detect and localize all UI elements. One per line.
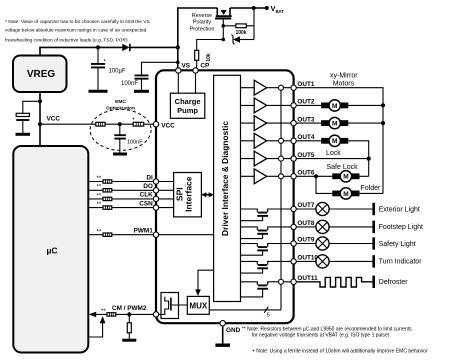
node sense tap OUT11: [279, 279, 284, 284]
wire OUT6: [296, 175, 368, 177]
wire CLK pin to SPI block: [156, 198, 174, 200]
svg-text:OUT11: OUT11: [297, 275, 318, 282]
terminal bar Turn Indicator: [372, 255, 375, 267]
svg-text:OUT2: OUT2: [297, 99, 314, 106]
node bus OUT2: [381, 103, 385, 107]
wire OUT3: [296, 122, 383, 124]
pin OUT11: [291, 279, 296, 284]
lamp Footstep Light: [296, 220, 372, 233]
resistor series CSN: [103, 206, 112, 209]
capacitor VREG output: [16, 101, 40, 133]
node junction rail / protection network: [252, 6, 256, 10]
svg-text:Interface: Interface: [183, 176, 193, 212]
svg-text:Reverse: Reverse: [192, 13, 212, 19]
zener diode gate protection: [240, 39, 254, 41]
svg-text:MUX: MUX: [189, 302, 207, 311]
SPI interface block: [174, 173, 202, 217]
pin OUT3: [291, 120, 296, 125]
wire VREG to VS: [40, 47, 178, 55]
svg-text:* Note: Value of capacitor has: * Note: Value of capacitor has to be cho…: [5, 19, 150, 25]
node 100uF tap: [96, 45, 100, 49]
svg-text:OUT5: OUT5: [297, 152, 314, 159]
svg-text:voltage below absolute maximum: voltage below absolute maximum ratings i…: [5, 28, 147, 34]
svg-text:Protection: Protection: [190, 27, 215, 33]
wire VS pin to charge pump: [177, 71, 179, 94]
wire driver to buffer OUT4: [241, 140, 291, 142]
svg-text:M: M: [332, 121, 337, 128]
svg-text:M: M: [332, 138, 337, 145]
svg-text:OUT1: OUT1: [297, 81, 314, 88]
wire gate lead: [222, 19, 224, 40]
svg-text:BAT: BAT: [276, 9, 285, 14]
buffer triangle OUT1: [254, 80, 267, 95]
svg-text:10k: 10k: [206, 53, 212, 62]
pin OUT6: [291, 174, 296, 179]
svg-text:CM / PWM2: CM / PWM2: [112, 305, 147, 312]
node sense tap: [279, 156, 284, 161]
svg-text:100k: 100k: [235, 30, 246, 36]
pin PWM1: [153, 232, 158, 237]
pin DO: [153, 188, 158, 193]
terminal bar Defroster: [372, 276, 375, 288]
svg-text:**: **: [97, 202, 102, 208]
pin OUT8: [291, 224, 296, 229]
svg-text:OUT3: OUT3: [297, 116, 314, 123]
svg-text:CLK: CLK: [140, 192, 154, 199]
diode series VREG-VS: [122, 44, 129, 51]
ground under 100uF: [89, 90, 108, 93]
svg-text:Turn Indicator: Turn Indicator: [379, 259, 423, 266]
pin OUT1: [291, 85, 296, 90]
svg-text:freewheeling condition of indu: freewheeling condition of inductive load…: [5, 38, 128, 44]
pin VS: [176, 68, 181, 73]
wire driver to buffer OUT5: [241, 158, 291, 160]
buffer triangle OUT2: [254, 98, 267, 113]
resistor series CLK: [103, 197, 112, 200]
svg-text:VCC: VCC: [161, 123, 175, 130]
svg-text:OUT8: OUT8: [297, 220, 314, 227]
wire OUT5: [296, 158, 368, 160]
capacitor 100uF: [91, 47, 105, 91]
lamp Safety Light: [296, 237, 372, 250]
svg-text:Polarity: Polarity: [193, 20, 212, 26]
wire VREG to uC: [39, 92, 41, 146]
node gate / 100k junction: [222, 24, 226, 28]
motor safe lock: [332, 171, 359, 182]
buffer triangle OUT6: [254, 169, 267, 184]
pin GND: [220, 321, 225, 326]
wire driver to buffer OUT2: [241, 104, 291, 106]
resistor 10k: [195, 50, 199, 60]
svg-text:M: M: [332, 103, 337, 110]
bidirectional arrow SPI to driver: [205, 194, 211, 196]
wire uC PWM2 return with up arrow: [88, 322, 102, 337]
svg-text:**: **: [97, 176, 102, 182]
wire MUX to sense bus with 5 marker: [209, 309, 281, 311]
wire VBAT rail left segment: [178, 8, 218, 71]
wire folder branch: [316, 176, 383, 193]
ground under 100nF: [134, 90, 149, 93]
wire driver to MUX with arrow: [198, 270, 214, 291]
svg-text:µC: µC: [46, 246, 57, 256]
resistor series DI: [103, 180, 112, 183]
svg-text:+: +: [132, 116, 135, 122]
resistor series DO: [103, 189, 112, 192]
pin OUT7: [291, 206, 296, 211]
driver IC L9950 body: [156, 70, 294, 323]
wire right vertical of protection network: [253, 8, 255, 40]
svg-text:Folder: Folder: [361, 185, 382, 192]
capacitor 100nF EMC: [114, 124, 126, 153]
node lock bus OUT5: [367, 157, 371, 161]
transistor reverse polarity NMOS: [215, 8, 232, 19]
wire CSN: [88, 207, 153, 209]
pin CLK: [153, 196, 158, 201]
resistor EMC right (10ohm / ferrite): [133, 122, 144, 126]
wire OUT1 to motor bus: [296, 88, 383, 194]
capacitor 100nF at VS: [135, 62, 178, 91]
svg-text:Charge: Charge: [175, 97, 201, 106]
heater Defroster: [296, 277, 372, 287]
node VS line / 100nF junction: [176, 61, 180, 65]
pin OUT9: [291, 241, 296, 246]
svg-text:**: **: [97, 193, 102, 199]
terminal bar Safety Light: [372, 237, 375, 249]
svg-text:DI: DI: [146, 174, 153, 181]
buffer triangle OUT5: [254, 151, 267, 166]
motor mirror X: [321, 100, 348, 111]
transistor low-side OUT9: [241, 244, 291, 256]
svg-text:Motors: Motors: [333, 81, 355, 88]
node sense tap: [279, 85, 284, 90]
ground under EMC cap: [113, 153, 127, 156]
lamp Turn Indicator: [296, 255, 372, 268]
node cap tap: [38, 99, 42, 103]
svg-text:Defroster: Defroster: [379, 279, 408, 286]
motor door lock: [321, 135, 348, 146]
wire PWM1 inside IC to driver: [156, 234, 214, 236]
wire driver to buffer OUT6: [241, 175, 291, 177]
node sense tap: [279, 138, 284, 143]
node OUT6 branch: [314, 174, 318, 178]
pin OUT10: [291, 259, 296, 264]
wire driver to buffer OUT1: [241, 87, 291, 89]
ground under CM resistor: [122, 339, 136, 342]
node CM divider junction: [127, 312, 131, 316]
resistor series CM/PWM2: [107, 313, 116, 316]
svg-text:VREG: VREG: [27, 69, 56, 80]
svg-text:**: **: [101, 309, 106, 315]
wire OUT4: [296, 141, 368, 177]
ground under VREG cap: [16, 133, 31, 136]
wire DI pin to SPI block: [156, 181, 174, 183]
resistor series PWM1: [103, 233, 112, 236]
wire zener node to CP resistor: [197, 40, 224, 51]
svg-text:**: **: [97, 229, 102, 235]
node VCC tap: [38, 122, 42, 126]
voltage regulator VREG: [13, 56, 67, 93]
pin VCC: [153, 122, 158, 127]
wire VCC rail: [40, 123, 153, 125]
svg-text:PWM1: PWM1: [134, 228, 154, 235]
svg-text:Pump: Pump: [177, 106, 198, 115]
buffer triangle OUT4: [254, 133, 267, 148]
transistor low-side OUT11: [241, 282, 291, 297]
pin DI: [153, 179, 158, 184]
transistor low-side OUT10: [241, 261, 291, 273]
svg-text:OUT7: OUT7: [297, 202, 314, 209]
microcontroller uC: [13, 146, 88, 353]
svg-text:OUT9: OUT9: [297, 237, 314, 244]
transistor low-side OUT8: [241, 227, 291, 239]
motor folder: [332, 188, 359, 199]
wire PWM1: [88, 234, 153, 236]
pin OUT5: [291, 156, 296, 161]
resistor 100k: [223, 25, 254, 27]
wire DO pin to SPI block: [156, 189, 174, 191]
wire driver to buffer OUT3: [241, 122, 291, 124]
svg-text:100µF: 100µF: [109, 69, 126, 75]
node VS line / diode wire junction: [176, 45, 180, 49]
svg-text:CSN: CSN: [139, 200, 153, 207]
wire DO: [88, 189, 153, 191]
svg-text:M: M: [343, 191, 348, 198]
EMC optimization dashed ellipse: [90, 109, 151, 150]
svg-text:100nF: 100nF: [127, 140, 143, 146]
svg-text:GND: GND: [226, 327, 241, 334]
wire CLK: [88, 198, 153, 200]
ground symbol GND pin: [215, 344, 230, 347]
svg-text:Safety Light: Safety Light: [379, 241, 416, 248]
svg-text:for negative voltage transient: for negative voltage transients at VBAT …: [252, 333, 390, 339]
pin OUT4: [291, 138, 296, 143]
wire DI: [88, 181, 153, 183]
MUX block: [187, 296, 209, 314]
svg-text:Driver Interface & Diagnostic: Driver Interface & Diagnostic: [220, 121, 230, 236]
svg-text:**: **: [97, 185, 102, 191]
CM output buffer block: [156, 293, 187, 319]
svg-text:CP: CP: [200, 63, 210, 70]
wire CSN pin to SPI block: [156, 207, 174, 209]
svg-text:Lock: Lock: [326, 150, 341, 157]
svg-text:Exterior Light: Exterior Light: [379, 206, 420, 213]
charge pump block: [170, 93, 204, 118]
terminal bar Exterior Light: [372, 203, 375, 215]
svg-text:100nF: 100nF: [121, 81, 138, 87]
pin OUT2: [291, 103, 296, 108]
resistor CM to ground: [128, 314, 130, 339]
svg-text:+ Note: Using a ferrite instea: + Note: Using a ferrite instead of 10ohm…: [252, 348, 428, 354]
svg-text:Optimization: Optimization: [106, 105, 135, 111]
wire CM/PWM2 with arrow into uC: [95, 313, 153, 315]
svg-text:EMC: EMC: [115, 99, 126, 105]
svg-text:DO: DO: [143, 183, 153, 190]
svg-text:OUT4: OUT4: [297, 134, 314, 141]
node bus OUT3: [381, 121, 385, 125]
driver interface and diagnostic block: [214, 75, 241, 301]
svg-text:Footstep Light: Footstep Light: [379, 224, 423, 231]
svg-text:VS: VS: [182, 63, 191, 70]
svg-text:5: 5: [267, 313, 270, 319]
wire CP pin to charge pump: [195, 71, 197, 94]
node VBAT terminal: [265, 6, 269, 10]
resistor EMC left: [96, 122, 105, 126]
node gate / zener junction: [222, 38, 226, 42]
wire VBAT rail right segment: [230, 7, 267, 9]
wire GND to ground: [222, 326, 224, 344]
terminal bar Footstep Light: [372, 221, 375, 233]
wire OUT2: [296, 104, 383, 106]
svg-text:OUT6: OUT6: [297, 170, 314, 177]
svg-text:Safe Lock: Safe Lock: [327, 164, 359, 171]
motor mirror Y: [321, 117, 348, 128]
node EMC cap junction: [118, 122, 122, 126]
pin CP: [193, 68, 198, 73]
buffer triangle OUT3: [254, 116, 267, 131]
wire current sense bus vertical: [280, 88, 282, 310]
node sense tap: [279, 174, 284, 179]
transistor low-side OUT7: [241, 209, 291, 221]
svg-text:xy-Mirror: xy-Mirror: [330, 72, 358, 79]
pin CSN: [153, 205, 158, 210]
lamp Exterior Light: [296, 202, 372, 215]
pin CM/PWM2: [153, 312, 158, 317]
svg-text:VCC: VCC: [47, 116, 61, 123]
svg-text:M: M: [343, 174, 348, 181]
